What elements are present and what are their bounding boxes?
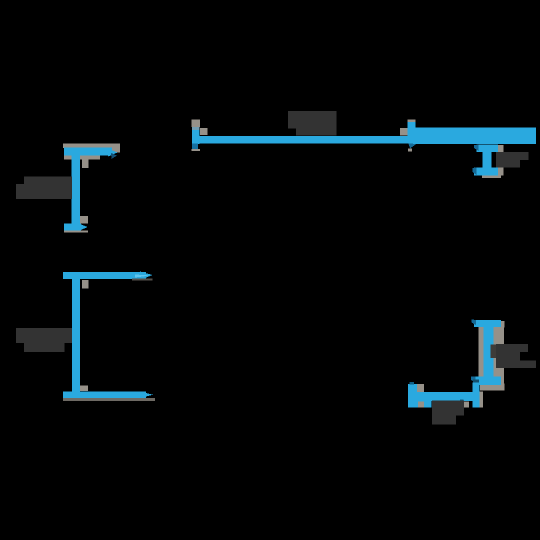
label blob: upper left xyxy=(16,177,72,200)
label blob: top right xyxy=(496,152,529,168)
bottom-right I-beam: stem xyxy=(484,325,494,382)
lower-left bracket: stem xyxy=(72,272,80,398)
upper-left dimension: bottom bar arrow tip xyxy=(80,224,88,231)
top-right small I-beam: top bar xyxy=(477,145,499,153)
label blob: bottom center xyxy=(432,401,464,425)
bottom dimension: gray under line right xyxy=(463,402,469,408)
bottom dimension: left tick xyxy=(408,384,417,408)
upper-left dimension: gray corner block at bar end xyxy=(112,144,120,152)
bottom-right I-beam: dark scribbles on stem xyxy=(491,345,497,359)
bottom-right I-beam: top cap teal tip xyxy=(472,320,477,326)
bottom dimension: right tick xyxy=(472,382,479,407)
lower-left bracket: bottom line xyxy=(63,392,146,399)
lower-left bracket: top line arrow tip xyxy=(140,272,153,281)
upper-left dimension: arrow dark shade xyxy=(111,153,117,159)
top dimension: left tick xyxy=(192,123,200,145)
bottom dimension: blue block under line left xyxy=(417,401,432,408)
top dimension: left tick gray cap xyxy=(192,120,201,128)
top dimension: right gray arrow block xyxy=(400,128,408,136)
upper-left dimension: gray block at stem bottom xyxy=(80,216,88,224)
lower-left bracket: top arrow highlight xyxy=(135,275,151,278)
bottom-right I-beam: gray shadow right xyxy=(493,327,504,385)
bottom dimension: teal bit under line right xyxy=(460,400,464,403)
top right thick edge band xyxy=(413,128,536,145)
bottom-right I-beam: gray below bottom cap xyxy=(480,384,505,391)
top dimension: right tick teal arrow below xyxy=(409,144,418,149)
top dimension: right tick xyxy=(408,122,416,144)
lower-left bracket: gray smudge below top arrow xyxy=(132,279,153,281)
top-right small I-beam: gray shadow strip xyxy=(498,145,504,176)
top dimension line xyxy=(200,136,408,144)
bottom dimension: left tick gray block xyxy=(417,384,424,392)
top dimension: left tick gray overlay xyxy=(192,127,200,130)
bottom-right I-beam: gray cap extension xyxy=(500,321,505,328)
bottom-right I-beam: gray shadow left xyxy=(479,325,485,378)
bottom-right I-beam: top cap xyxy=(474,320,501,327)
top-right small I-beam: stem xyxy=(483,152,492,168)
label blob: lower left xyxy=(16,328,72,352)
bottom dimension: gray inset under line xyxy=(418,402,424,408)
lower-left bracket: bottom line arrow tip xyxy=(140,392,153,399)
label blob: bottom right xyxy=(496,344,536,368)
upper-left dimension: gray mid strip xyxy=(64,156,100,160)
bottom dimension: right tick gray shadow xyxy=(479,391,483,407)
top-right small I-beam: bottom bar teal tip xyxy=(473,168,477,176)
upper-left dimension: gray block below bar xyxy=(82,156,89,169)
top-right small I-beam: bottom bar xyxy=(474,168,498,176)
top dimension: left tick dark foot xyxy=(192,144,198,150)
upper-left dimension: gray bottom strip xyxy=(64,231,88,233)
upper-left dimension: gray top strip xyxy=(63,144,120,149)
top-right small I-beam: gray below xyxy=(482,176,501,179)
upper-left dimension: bottom bar xyxy=(64,224,81,232)
upper-left dimension: stem xyxy=(72,155,80,224)
upper-left dimension: top bar xyxy=(64,148,112,156)
lower-left bracket: top line xyxy=(63,272,146,279)
top dimension: left gray arrow block xyxy=(200,128,208,135)
top-right small I-beam: top bar teal tip xyxy=(474,145,479,152)
top dimension: right tick gray cap xyxy=(408,120,416,124)
lower-left bracket: gray notch bottom xyxy=(80,386,88,392)
bottom dimension: left tick teal top xyxy=(410,382,415,385)
top dimension: right gray streak below xyxy=(408,149,412,152)
bottom dimension line xyxy=(417,392,472,401)
label blob: top center xyxy=(288,111,337,136)
upper-left dimension: top bar arrow tip xyxy=(108,149,118,157)
lower-left bracket: gray underline below bottom line xyxy=(63,398,155,401)
bottom-right I-beam: bottom cap teal tip xyxy=(471,377,476,383)
bottom dimension: right tick teal scribble xyxy=(473,380,479,383)
lower-left bracket: gray notch top xyxy=(82,280,89,289)
top dimension: left gray underline xyxy=(192,149,201,151)
bottom-right I-beam: bottom cap xyxy=(474,377,501,386)
